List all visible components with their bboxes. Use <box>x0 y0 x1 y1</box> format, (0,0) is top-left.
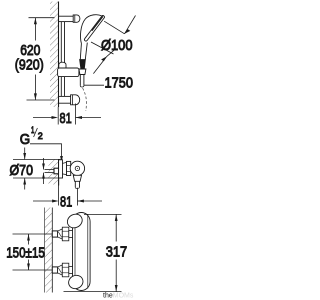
dim 317 line + arrows <box>115 214 118 291</box>
dim G1/2 arrows <box>42 158 45 184</box>
hand shower head back arc <box>80 15 101 44</box>
thermostat body (plan view) capsule <box>73 213 91 291</box>
svg-text:1750: 1750 <box>105 74 134 91</box>
dim Ø100 upper ext line <box>104 21 124 34</box>
dim 317 ext lines <box>64 214 122 291</box>
svg-text:81: 81 <box>60 193 72 210</box>
dim 620 bottom tick <box>27 99 55 101</box>
svg-text:150±15: 150±15 <box>6 245 45 262</box>
union cone <box>63 162 67 174</box>
dim Ø100 lower ext line <box>91 42 114 54</box>
svg-text:theMOMs: theMOMs <box>103 293 134 300</box>
thermostat escutcheon (side) <box>59 160 63 178</box>
top bracket arm <box>59 15 80 22</box>
wall top section <box>50 2 59 108</box>
dim 150±15 arrows <box>27 234 30 270</box>
holder clamp on rail <box>58 62 79 76</box>
top bracket cap <box>73 15 80 22</box>
dim 81 top: left line <box>33 107 58 125</box>
handle outline <box>80 43 87 60</box>
wall middle section <box>49 159 59 186</box>
svg-text:Ø70: Ø70 <box>10 162 34 179</box>
dim 81 middle: right arrow <box>77 188 102 206</box>
svg-text:G: G <box>20 131 30 148</box>
dim Ø100 lower arrow <box>93 56 106 73</box>
upper inlet union <box>52 227 72 241</box>
dim Ø100 upper arrow <box>125 16 136 34</box>
outlet nut <box>73 175 81 181</box>
hose flare nut <box>79 69 86 75</box>
label G 1/2 <box>20 125 43 148</box>
svg-text:2: 2 <box>38 131 43 141</box>
dim 150±15 ext lines <box>13 234 53 270</box>
handle knob top <box>65 212 85 231</box>
wall bottom section <box>45 208 53 293</box>
dim Ø70 arrows <box>23 148 26 190</box>
dim 620 top tick <box>29 17 55 19</box>
dim Ø100 line stub <box>107 50 115 57</box>
svg-text:317: 317 <box>106 244 128 261</box>
thermostat body circle <box>70 161 84 175</box>
lower inlet union <box>52 263 72 277</box>
dim 620 bottom arrow <box>34 75 37 101</box>
dim 620 top arrow <box>34 18 37 41</box>
bottom bracket arm <box>59 95 80 105</box>
leader 1750 <box>84 84 104 86</box>
outlet pipe <box>75 181 79 188</box>
svg-text:81: 81 <box>60 110 72 127</box>
hand shower face band <box>84 16 104 41</box>
dim Ø70 ext lines <box>13 160 61 179</box>
G1/2 pipe in wall <box>45 168 59 174</box>
svg-text:(920): (920) <box>15 57 44 74</box>
svg-text:Ø100: Ø100 <box>101 37 133 54</box>
leader G1/2 <box>30 144 63 163</box>
svg-text:1: 1 <box>31 125 34 135</box>
hose dashed continuation <box>83 88 87 111</box>
union hex nut <box>67 161 71 175</box>
dim 81 top: right arrow <box>76 104 102 125</box>
rail (slide bar) <box>61 22 64 97</box>
handle dark cone in holder <box>80 60 86 70</box>
bottom bracket cap <box>71 95 80 105</box>
dim 81 middle: left arrow <box>33 186 59 206</box>
hose stub <box>80 75 84 88</box>
handle knob bottom <box>66 273 85 291</box>
